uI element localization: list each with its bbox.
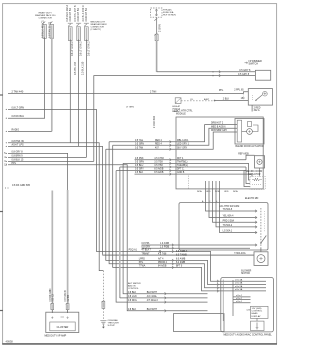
connector A2 (top left) [50,22,53,25]
svg-text:RECIRC DOOR: RECIRC DOOR [246,171,263,173]
group2 row y174.1 [135,173,247,175]
box: I/P dimmer switch [255,70,270,80]
svg-text:C2 B4: C2 B4 [68,294,70,301]
dashed shield segment before relay row2 [181,100,215,102]
svg-text:CONNECTOR: CONNECTOR [39,17,53,19]
svg-text:0.8 BLK 451 C1: 0.8 BLK 451 C1 [41,20,44,38]
splice connector on ground drop [102,300,105,302]
svg-text:0.5 PNK: 0.5 PNK [135,158,144,160]
svg-text:0.8 BRN 9: 0.8 BRN 9 [12,154,24,157]
wire: long row y93.4 from left edge to relay [8,92,248,94]
svg-text:DRB HOT 2: DRB HOT 2 [211,123,224,125]
svg-text:DKB MBR GRY: DKB MBR GRY [211,130,228,132]
dashed internal connector line in box1 [188,176,190,189]
svg-text:2 PPL 65: 2 PPL 65 [234,89,244,91]
svg-text:PRDW 4: PRDW 4 [158,262,168,264]
svg-text:0.8 GRY 8: 0.8 GRY 8 [12,150,24,153]
svg-text:SWITCH: SWITCH [249,63,259,66]
wire: box1 pin x216.0 down into box2 row y226.9 [216,189,257,227]
cluster inner box [50,322,75,331]
panel left connector vertical [222,280,224,322]
box: heater-A/C control module (box1) [176,117,263,189]
left margin tick y95 [0,94,3,96]
connector B2 crossbar [76,22,81,24]
svg-text:2.0 BLK 150 C: 2.0 BLK 150 C [82,5,85,21]
svg-text:0.8 BLK: 0.8 BLK [128,292,137,294]
svg-text:PPL: PPL [219,90,224,92]
two dots left of label [5,188,6,189]
wire: center row R2 y145.3 to blend actuator [113,128,237,145]
connector at bottom of x67 wire [66,302,69,304]
thick gray motor feed row [103,254,255,256]
svg-text:0.8 DK BLU: 0.8 DK BLU [12,115,25,118]
svg-text:C2/C1 HTR CTRL: C2/C1 HTR CTRL [174,110,193,112]
svg-text:2.0 BLK 150: 2.0 BLK 150 [82,61,85,75]
wire: row y164.8 long drop x129.5 to row y310.8 [8,165,208,311]
splice dots on dimmer rows [212,71,213,72]
box: blower resistor (dashed) [250,177,265,190]
wire: row y153.4 down at x67.6 to bottom connector [8,153,68,190]
svg-text:0.8 LGN: 0.8 LGN [128,296,137,298]
svg-text:CONTROL: CONTROL [128,288,139,290]
wire: B3 down to row y157.4 (T) [85,40,87,158]
switch aux dashes [264,211,266,232]
wire: row y157.4 to connector B3 riser [8,156,86,158]
wire: box1 pin x219.5 down into box2 row y232.5 [220,189,258,233]
svg-text:2 BLK: 2 BLK [223,99,230,101]
actuator pin strip [237,120,241,142]
svg-text:3.5 7/58: 3.5 7/58 [154,165,163,167]
chevrons at panel entry rows [217,280,219,283]
svg-text:MED DUTY I/P AMP: MED DUTY I/P AMP [45,335,67,338]
svg-text:0.5 BLU: 0.5 BLU [135,165,144,167]
svg-text:C100 AT B4: C100 AT B4 [69,8,72,22]
svg-text:MODULE: MODULE [176,114,186,116]
recirc actuator feed corners [246,155,255,160]
relay switch arm [256,95,262,100]
actuator internal link [242,131,247,133]
svg-text:0.8 LT GRN 2: 0.8 LT GRN 2 [87,41,90,56]
dashed ground drop [102,271,104,301]
svg-text:2 ORN: 2 ORN [158,24,161,32]
connect text box to small box [256,318,258,321]
svg-text:2 ORN 640: 2 ORN 640 [153,115,156,128]
switch arm [261,236,266,244]
svg-text:0.8 DK GRN 835: 0.8 DK GRN 835 [12,184,31,187]
row y174.1 into resistor box [246,174,252,176]
svg-text:0.8 PNK 39: 0.8 PNK 39 [12,140,25,143]
relay internal dashes [252,95,254,101]
cluster internal arrows [51,317,53,319]
wire: row y161.4 up at x93.8 (joins dimmer chain) [8,160,94,162]
box: HVAC control panel [221,278,274,332]
wires into cluster box [51,310,53,313]
connector B1 crossbar [68,22,73,24]
wire: box1 pin x212.5 down into box2 row y222.2 [213,189,258,222]
svg-text:PPL: PPL [139,262,144,264]
svg-text:0.8 TAN 30 C1: 0.8 TAN 30 C1 [49,21,52,38]
svg-text:CONTROL: CONTROL [252,311,263,313]
svg-text:2 TAN 440: 2 TAN 440 [12,90,24,93]
svg-text:C100 AT B4: C100 AT B4 [85,8,88,22]
svg-text:0.5 BLK: 0.5 BLK [135,172,144,174]
group2 row y163.4 [123,162,246,164]
svg-text:4.5 7/68: 4.5 7/68 [158,253,167,255]
svg-text:0.5 PPL 157 B: 0.5 PPL 157 B [74,5,77,21]
connector A1 (top left) [42,22,45,25]
box: blend door actuator [235,119,264,145]
wire: thick gray x52.3 down to cluster [51,191,53,303]
connector B3 crossbar [84,22,89,24]
svg-text:HOT IN RUN: HOT IN RUN [163,15,176,17]
actuator motor circle [247,129,253,135]
svg-text:12V: 12V [246,310,250,312]
svg-text:LPRD: LPRD [139,259,145,261]
relay output wire down [251,105,253,111]
blower switch dashed contact line [260,208,262,248]
svg-text:MEDIUM DUTY: MEDIUM DUTY [91,22,106,24]
svg-text:GND B: GND B [177,172,185,174]
switch to motor drop [260,248,262,252]
svg-text:0.8 DK GRN: 0.8 DK GRN [50,288,52,301]
svg-text:1.0 P/DB: 1.0 P/DB [160,246,170,248]
svg-text:LT GRN: LT GRN [126,106,134,108]
R2 drop via b6 to panel row 290.9 [113,145,266,291]
inline connector C on fuse wire [154,33,157,36]
connector B1 [68,24,71,27]
svg-text:RADIO: RADIO [12,128,20,131]
connector at bottom of x52 wire [51,302,54,304]
svg-text:C100 AT B4: C100 AT B4 [77,8,80,22]
R1 drop via b5 to panel row 287.7 [109,142,266,288]
fuse symbol inside [155,9,157,16]
svg-text:RED 4: RED 4 [155,143,162,145]
svg-text:0.5 GRY: 0.5 GRY [135,169,144,171]
shield symbol [175,98,181,104]
svg-text:BLK/WHT: BLK/WHT [147,309,158,311]
svg-text:ASH T LPS: ASH T LPS [12,143,25,146]
svg-text:BLOWER: BLOWER [241,270,251,272]
fuse block dashed outline [151,8,163,17]
connector tick on fuse wire [154,18,157,21]
svg-text:0.8 RED 142 A: 0.8 RED 142 A [66,5,69,22]
svg-text:THROUGH: THROUGH [108,322,119,324]
box: aux connector block (bottom center) [174,314,225,332]
group2 row y167.0 [120,166,246,168]
svg-text:ELECTR MD: ELECTR MD [245,198,259,200]
svg-text:LH KICK: LH KICK [172,108,181,110]
box1 bottom pin stubs [205,181,207,189]
ground symbol [100,321,106,324]
wire: relay row2 y100.5 [215,100,249,102]
svg-text:0.5 GRY 8: 0.5 GRY 8 [238,73,250,76]
svg-text:0.5 GRN: 0.5 GRN [135,162,144,164]
svg-text:xOx 4: xOx 4 [236,298,242,300]
svg-text:TRNMT: TRNMT [142,253,151,255]
svg-text:S-P/UP: S-P/UP [108,325,116,327]
left margin tick y310 [0,310,3,312]
svg-text:MBL 14/C1: MBL 14/C1 [177,140,189,142]
wire: box1 pin x209.0 down into box2 row y217.5 [209,189,257,218]
svg-text:2 RED: 2 RED [254,107,261,109]
wire: center row R3 y149.2 to blend actuator [106,132,237,149]
box: blower motor [254,252,268,266]
panel short rows [233,296,251,298]
wire: row y142.8 via b2 to ground drop [8,143,103,271]
svg-text:SKY GRY: SKY GRY [177,147,188,149]
group2 row y159.8 [135,159,247,161]
svg-text:0.5 YEL: 0.5 YEL [135,140,144,142]
svg-text:4.5 C783: 4.5 C783 [154,158,164,160]
relay coil circle [263,91,268,96]
svg-text:CLUSTER: CLUSTER [57,326,69,329]
svg-text:xOx 4: xOx 4 [236,301,242,303]
box: blower switch assembly (box2) [179,203,268,250]
svg-text:DFT 4: DFT 4 [177,158,184,160]
group2 row y170.6 [116,170,246,172]
row y245 into box2 [142,244,258,246]
svg-text:LED GRY 1: LED GRY 1 [177,143,190,145]
svg-text:0.8 LT GRN 2: 0.8 LT GRN 2 [80,41,83,56]
recirc to resistor link [259,168,261,177]
wire: center row R1 y141.8 to blend actuator [109,125,237,142]
connector B2 [76,24,79,27]
wire: row y109.4 via bundle b1 to panel [8,109,266,281]
svg-text:0.8 PPL: 0.8 PPL [142,243,151,245]
svg-text:0.5 PPL 157: 0.5 PPL 157 [74,61,77,75]
svg-text:MOTOR: MOTOR [241,273,250,275]
wire: row y146.4 via b3 to blower motor feed [8,146,103,255]
wire: row y131 to left edge [8,130,52,132]
bottom border heavy line [2,343,277,345]
junction circle on row 252.8 crossing [159,251,161,253]
box: recirc door actuator [255,156,265,168]
row y248.2 into box2 [142,247,251,249]
svg-text:DFT C.: DFT C. [177,169,185,171]
svg-text:12V (IGN): 12V (IGN) [252,308,262,310]
svg-text:0.5 GRY 8: 0.5 GRY 8 [239,69,251,72]
svg-text:UFD: UFD [206,191,211,193]
svg-text:MED DUTY AUDIO/HVAC CONTROL PA: MED DUTY AUDIO/HVAC CONTROL PANEL [224,334,273,337]
g2 row y167.0 down leg via b8 (thick) [119,167,121,171]
svg-text:8.4 0/MB: 8.4 0/MB [176,262,186,264]
svg-text:0.8 GRY: 0.8 GRY [142,246,151,248]
wire: connector A1 down to left edge row y118 [8,37,45,118]
g2 row y170.6 down leg via b7 [116,171,207,303]
svg-text:xOx 4: xOx 4 [236,295,242,297]
svg-text:0.8 BLK 15: 0.8 BLK 15 [12,158,24,161]
resistor elements [252,178,262,181]
svg-text:0.8 LT GRN: 0.8 LT GRN [12,106,25,109]
wire: B1 down to row y142.8 (T) [69,40,71,143]
box: blower motor relay [248,89,272,106]
g2 row y163.4 down leg via b9 [123,163,207,293]
connector B3 [84,24,87,27]
wire: box1 pin x205.5 down into box2 row y211.0 [206,189,258,211]
svg-text:0.5 GRN: 0.5 GRN [135,143,144,145]
svg-text:BLK/WHT: BLK/WHT [147,292,158,294]
R3 drop via b4 to panel row 284.5 [106,149,266,284]
svg-text:4/T 44GL3: 4/T 44GL3 [147,300,159,302]
dashed connector mark near relay [242,94,244,102]
svg-text:CONNECTOR: CONNECTOR [91,26,105,28]
box: cluster [46,312,79,332]
left margin tick y211 [0,211,3,213]
wire: thick gray from connector A2 down [51,37,53,131]
svg-text:835 C2: 835 C2 [53,293,55,301]
wire: inline connector down to corner (thick) [156,41,158,72]
svg-text:BFT 0: BFT 0 [176,266,183,268]
svg-text:UFD: UFD [224,191,229,193]
svg-text:0.8 BLK: 0.8 BLK [128,309,137,311]
svg-text:PPL: PPL [12,162,17,165]
panel lower small box [251,321,265,330]
wire: B2 down to row y146.4 (T) [78,40,80,147]
wire: fuse down to inline connector [156,17,158,34]
svg-text:3.5 7/58: 3.5 7/58 [154,162,163,164]
panel text box [251,306,269,318]
panel inner vertical [232,280,234,316]
wire: chain B via x93.8 up to y75.6 right to dimmer [94,76,256,162]
svg-text:0.8 LT GRN 2: 0.8 LT GRN 2 [71,41,74,56]
svg-text:0.8 DKG: 0.8 DKG [128,300,137,302]
svg-text:A/C-HTR SW ASM: A/C-HTR SW ASM [219,205,239,208]
svg-text:RED 4: RED 4 [155,140,162,142]
